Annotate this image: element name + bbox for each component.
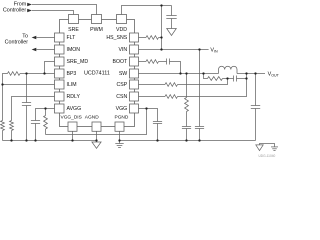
resistor ILIM divider bottom — [1, 121, 5, 131]
pin box CSP — [130, 80, 139, 89]
pin box IMON — [55, 45, 65, 54]
wire AGND rail — [3, 140, 97, 142]
wire HS_SNS — [139, 37, 147, 39]
ground earth PGND — [115, 144, 123, 148]
wire ground pair bar — [260, 144, 275, 147]
resistor snubber — [185, 98, 189, 112]
pin box VDD — [117, 15, 127, 24]
wire CSN — [139, 96, 166, 98]
resistor AVGG filter — [45, 109, 47, 116]
svg-text:RDLY: RDLY — [67, 94, 81, 100]
resistor BP3 divider top — [8, 72, 21, 76]
arrow to SRE — [27, 9, 32, 12]
wire IMON — [36, 49, 54, 51]
wire output cap drop — [255, 74, 257, 106]
pin box PWM — [92, 15, 102, 24]
svg-text:AGND: AGND — [85, 114, 99, 120]
wire ILIM — [3, 84, 55, 86]
svg-text:VIN: VIN — [210, 47, 218, 53]
capacitor DCR sense — [234, 76, 237, 82]
svg-text:IMON: IMON — [67, 47, 81, 53]
wire AVGG return — [46, 109, 147, 135]
capacitor output — [251, 106, 260, 109]
pin box BP3 — [55, 69, 65, 78]
wire snubber from SW — [186, 74, 188, 98]
wire AVGG — [36, 109, 55, 121]
pin box AGND — [92, 122, 101, 131]
IC body U1 — [60, 20, 135, 127]
svg-text:Controller: Controller — [5, 39, 29, 45]
label From Controller — [3, 2, 27, 14]
wire VDD branch down to VIN — [161, 6, 163, 50]
pin box BOOT — [130, 57, 139, 66]
wire BOOT — [139, 61, 147, 63]
inductor L1 — [219, 66, 238, 73]
ground earth right — [271, 147, 278, 151]
pin box FLT — [55, 33, 65, 42]
svg-text:SRE_MD: SRE_MD — [67, 59, 89, 65]
label To Controller — [5, 33, 29, 45]
svg-text:Controller: Controller — [3, 8, 27, 14]
wire BOOT cap to SW — [170, 62, 181, 74]
wire VOUT row — [237, 73, 265, 75]
resistor RDLY — [10, 121, 14, 131]
svg-text:VGG: VGG — [116, 106, 128, 112]
pin labels bottom — [61, 114, 129, 120]
arrow IMON to controller — [32, 48, 37, 51]
svg-text:ILIM: ILIM — [67, 82, 77, 88]
pin box ILIM — [55, 80, 65, 89]
svg-text:VOUT: VOUT — [268, 71, 280, 77]
wire VDD top rail — [122, 6, 172, 15]
svg-text:UCD74111: UCD74111 — [84, 71, 110, 77]
wire sense cap to VOUT node — [237, 74, 247, 79]
svg-text:BP3: BP3 — [67, 71, 77, 77]
wire PGND pin down — [119, 131, 121, 143]
svg-text:FLT: FLT — [67, 35, 77, 41]
ground triangle VDD cap — [167, 29, 177, 36]
pin box PGND — [115, 122, 124, 131]
wire VIN rail — [139, 49, 209, 51]
svg-text:VGG_DIS: VGG_DIS — [61, 114, 82, 120]
svg-text:SW: SW — [119, 71, 127, 77]
svg-text:BOOT: BOOT — [112, 59, 128, 65]
wire AGND pin down — [96, 131, 98, 142]
pin box VIN — [130, 45, 139, 54]
capacitor BP3 bypass — [26, 74, 28, 103]
wire PGND rail — [120, 140, 256, 142]
svg-text:VDD: VDD — [116, 27, 127, 33]
wire sense branch — [204, 74, 208, 79]
svg-text:HS_SNS: HS_SNS — [106, 35, 127, 41]
wire RDLY — [12, 97, 55, 121]
resistor CSN — [165, 95, 178, 99]
svg-text:CSP: CSP — [117, 82, 128, 88]
resistor CSP — [165, 83, 178, 87]
pin box HS_SNS — [130, 33, 139, 42]
pin box VGG_DIS — [68, 122, 77, 131]
ground triangle right — [256, 145, 263, 151]
capacitor AVGG — [31, 121, 40, 124]
svg-text:SRE: SRE — [68, 27, 79, 33]
pin box SW — [130, 69, 139, 78]
resistor BOOT — [146, 60, 159, 64]
wire from controller to PWM — [32, 5, 97, 15]
resistor DCR sense — [208, 77, 223, 81]
wire from controller to SRE — [32, 11, 74, 15]
wire BP3 row — [20, 73, 55, 75]
svg-text:CSN: CSN — [116, 94, 127, 100]
pin box VGG — [130, 104, 139, 113]
svg-text:VIN: VIN — [119, 47, 128, 53]
wire VGG_DIS down — [72, 131, 74, 140]
svg-text:PGND: PGND — [115, 114, 129, 120]
pin box CSN — [130, 92, 139, 101]
pin box RDLY — [55, 92, 65, 101]
pin labels top — [68, 27, 127, 33]
capacitor BOOT — [167, 59, 170, 65]
capacitor snubber — [182, 127, 191, 129]
pin labels right — [106, 35, 128, 112]
pin box AVGG — [55, 104, 65, 113]
pin box SRE — [69, 15, 79, 24]
arrow to PWM — [27, 3, 32, 6]
capacitor VGG — [153, 122, 162, 124]
wire VGG — [139, 109, 158, 122]
ground triangle AGND — [92, 142, 101, 148]
wire input cap drop — [199, 50, 201, 127]
resistor HS_SNS — [146, 36, 159, 40]
capacitor input — [195, 127, 204, 129]
svg-text:AVGG: AVGG — [67, 106, 82, 112]
arrow FLT to controller — [32, 36, 37, 39]
wire FLT — [36, 37, 54, 39]
pin box SRE_MD — [55, 57, 65, 66]
wire SW — [139, 73, 219, 75]
svg-text:UDG-11040: UDG-11040 — [259, 154, 276, 158]
wire SRE_MD tie — [45, 62, 55, 74]
svg-text:PWM: PWM — [90, 27, 103, 33]
capacitor VDD bypass — [166, 6, 176, 29]
pin labels left — [67, 35, 89, 112]
wire CSP — [139, 84, 166, 86]
